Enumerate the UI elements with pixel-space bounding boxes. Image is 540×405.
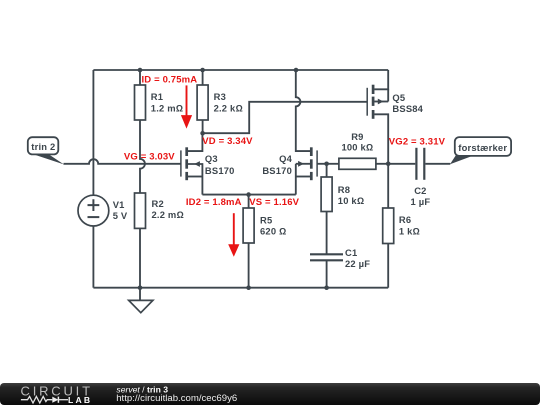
svg-text:V1: V1	[113, 199, 125, 210]
label Q3 BS170	[205, 153, 235, 176]
wire R1 top lead	[139, 70, 141, 85]
wire R6 top lead	[387, 164, 389, 208]
wire VD node to Q5 gate	[203, 102, 367, 133]
wire R6 bottom lead	[387, 244, 389, 288]
svg-text:Q3: Q3	[205, 153, 218, 164]
label R8 10 kohm	[338, 184, 364, 206]
junction bottom rail R5	[246, 285, 251, 290]
svg-text:1 kΩ: 1 kΩ	[399, 225, 420, 236]
svg-text:R2: R2	[152, 198, 164, 209]
junction source node	[246, 192, 251, 197]
footer logo diode	[52, 397, 68, 403]
ground	[129, 288, 153, 313]
svg-text:1 µF: 1 µF	[411, 196, 431, 207]
annotation current arrow ID2	[228, 213, 239, 257]
resistor R3	[197, 85, 208, 120]
wire output node to C2	[388, 163, 415, 165]
wire R1-R2 link with hop over input wire	[140, 120, 145, 193]
svg-text:5 V: 5 V	[113, 210, 128, 221]
transistor Q4	[296, 147, 327, 194]
svg-text:620 Ω: 620 Ω	[260, 226, 286, 237]
wire V1 branch lower	[92, 226, 94, 288]
wire input to Q3 gate with hop over V1 branch	[64, 159, 181, 164]
label V1 5 V	[113, 199, 128, 221]
svg-text:trin 2: trin 2	[31, 141, 55, 152]
svg-text:R8: R8	[338, 184, 350, 195]
wire R5 top lead	[248, 195, 250, 208]
node forstaerker output flag	[450, 137, 511, 164]
svg-text:R5: R5	[260, 214, 272, 225]
svg-text:R3: R3	[214, 91, 226, 102]
svg-text:10 kΩ: 10 kΩ	[338, 195, 364, 206]
wire R2 bottom lead	[139, 228, 141, 287]
junction output node	[386, 162, 391, 167]
svg-text:100 kΩ: 100 kΩ	[341, 141, 373, 152]
junction gate node R8 R9	[324, 162, 329, 167]
label R2 2.2 mohm	[152, 198, 184, 220]
resistor R2	[135, 193, 146, 228]
wire common source Q3-Q4	[202, 194, 295, 196]
svg-text:http://circuitlab.com/cec69y6: http://circuitlab.com/cec69y6	[116, 393, 237, 404]
label R1 1.2 mohm	[151, 91, 183, 113]
resistor R5	[243, 208, 254, 243]
label R6 1 kohm	[399, 214, 420, 236]
svg-text:VG2 = 3.31V: VG2 = 3.31V	[389, 136, 446, 147]
svg-text:VS = 1.16V: VS = 1.16V	[249, 197, 299, 208]
wire Q4 drain to rail with hop	[296, 70, 310, 151]
label C1 22 uF	[345, 247, 370, 269]
resistor R1	[135, 85, 146, 120]
transistor Q5	[367, 70, 388, 164]
wire R5 bottom lead	[248, 243, 250, 288]
junction bottom rail C1	[324, 285, 329, 290]
svg-text:BS170: BS170	[205, 165, 235, 176]
capacitor C1	[310, 254, 343, 260]
label R3 2.2 kohm	[214, 91, 243, 113]
resistor R8	[321, 177, 332, 212]
label R5 620 ohm	[260, 214, 286, 236]
label R9 100 kohm	[341, 131, 373, 153]
wire top supply rail	[93, 69, 388, 71]
svg-text:2.2 kΩ: 2.2 kΩ	[214, 102, 243, 113]
svg-text:LAB: LAB	[68, 395, 92, 405]
resistor R9	[339, 158, 376, 169]
svg-text:R9: R9	[351, 131, 363, 142]
wire V1 branch upper	[92, 70, 94, 195]
svg-text:R6: R6	[399, 214, 411, 225]
svg-text:1.2 mΩ: 1.2 mΩ	[151, 102, 183, 113]
svg-text:VD = 3.34V: VD = 3.34V	[202, 136, 253, 147]
wire R9 right lead	[376, 163, 388, 165]
svg-text:C2: C2	[414, 185, 426, 196]
wire C2 to output flag	[425, 163, 450, 165]
wire C1 bottom lead	[326, 260, 328, 287]
node trin 2 input flag	[28, 137, 64, 164]
footer logo resistor zigzag	[21, 396, 52, 403]
svg-text:VG = 3.03V: VG = 3.03V	[124, 151, 175, 162]
node VD junction	[200, 131, 205, 136]
svg-text:ID2 = 1.8mA: ID2 = 1.8mA	[186, 197, 242, 208]
svg-text:Q5: Q5	[392, 92, 405, 103]
wire Q4 gate node to R8	[326, 164, 328, 177]
label Q4 BS170	[262, 153, 292, 176]
wire bottom ground rail	[93, 287, 388, 289]
label Q5 BSS84	[392, 92, 423, 114]
transistor Q3	[181, 133, 203, 194]
wire R9 left lead	[327, 163, 339, 165]
annotation current arrow ID	[181, 85, 192, 128]
junction top rail R1	[138, 68, 143, 73]
svg-text:BS170: BS170	[262, 165, 292, 176]
voltage source V1	[78, 195, 109, 226]
wire R8 to C1	[326, 212, 328, 255]
footer bar	[0, 383, 540, 405]
wire R3 top lead	[202, 70, 204, 85]
svg-text:BSS84: BSS84	[392, 103, 423, 114]
capacitor C2	[416, 148, 424, 180]
svg-text:C1: C1	[345, 247, 357, 258]
svg-text:Q4: Q4	[279, 153, 292, 164]
label C2 1 uF	[411, 185, 431, 207]
wire R3 bottom lead	[202, 120, 204, 133]
svg-text:ID = 0.75mA: ID = 0.75mA	[142, 74, 198, 85]
svg-text:forstærker: forstærker	[458, 142, 507, 153]
svg-text:2.2 mΩ: 2.2 mΩ	[152, 209, 184, 220]
svg-text:22 µF: 22 µF	[345, 258, 370, 269]
junction bottom rail ground	[138, 285, 143, 290]
resistor R6	[383, 208, 394, 244]
junction top rail Q4 drain	[294, 68, 299, 73]
svg-text:R1: R1	[151, 91, 163, 102]
junction top rail R3	[200, 68, 205, 73]
